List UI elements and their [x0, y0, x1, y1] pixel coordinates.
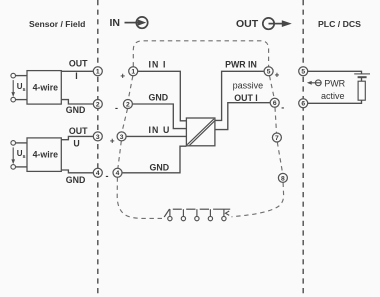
wire terminal to box bottom, block 2 [16, 166, 28, 168]
svg-text:7: 7 [275, 135, 279, 142]
device terminal 5 (PWR IN +) [264, 67, 273, 76]
svg-text:I: I [75, 71, 77, 81]
wire block2 GND to terminal 4 [61, 170, 93, 173]
svg-text:PLC / DCS: PLC / DCS [318, 19, 361, 29]
PLC terminal 5 on divider [299, 67, 308, 76]
svg-text:OUT: OUT [236, 18, 259, 30]
icon IN current-flow arrow into circle [125, 17, 148, 28]
icon OUT current-flow arrow out of circle [263, 18, 292, 29]
svg-text:GND: GND [66, 105, 86, 115]
4-wire transmitter block 2 terminal bottom [11, 165, 16, 170]
device dashed outline right edge segment 6-7 [275, 107, 277, 132]
DIP switch S4 [200, 209, 213, 221]
4-wire transmitter block 1 terminal top [11, 73, 16, 78]
device dashed outline top edge [133, 41, 268, 67]
wire resistor to terminal 6 [308, 100, 362, 103]
svg-text:5: 5 [267, 69, 271, 76]
svg-text:1: 1 [96, 69, 100, 76]
device dashed outline left edge segment 2-3 [122, 109, 128, 132]
svg-text:4: 4 [96, 170, 100, 177]
svg-text:OUT: OUT [69, 59, 88, 69]
svg-text:U: U [73, 139, 79, 149]
svg-text:IN U: IN U [149, 125, 171, 135]
svg-text:IN: IN [110, 17, 121, 29]
svg-text:+: + [120, 72, 125, 81]
PLC terminal 6 on divider [299, 99, 308, 108]
svg-text:2: 2 [126, 101, 130, 108]
svg-text:Sensor / Field: Sensor / Field [29, 19, 85, 29]
device terminal 8 [278, 173, 287, 182]
wire GND from terminal 4 to isolator bottom corner [122, 146, 186, 173]
svg-text:4: 4 [116, 170, 120, 177]
svg-text:-: - [115, 103, 118, 113]
svg-text:OUT I: OUT I [234, 93, 257, 103]
svg-text:PWR IN: PWR IN [225, 60, 257, 70]
device dashed outline left edge segment 3-4 [118, 141, 121, 168]
svg-text:active: active [321, 91, 345, 101]
wire terminal to box top, block 1 [16, 75, 28, 77]
device dashed outline left edge segment 1-2 [128, 76, 133, 99]
wire terminal 5 to battery [308, 71, 362, 74]
supply voltage arrow Us block 2 [12, 147, 14, 160]
4-wire transmitter block 1 terminal bottom [11, 97, 16, 102]
wire block2 OUT U to terminal 3 [61, 136, 93, 139]
svg-text:s: s [23, 87, 26, 93]
4-wire transmitter block 2 terminal top [11, 141, 16, 146]
svg-text:s: s [23, 154, 26, 160]
svg-text:5: 5 [301, 69, 305, 76]
wire GND from terminal 2 to isolator [132, 104, 186, 129]
device dashed outline right edge segment 5-6 [270, 76, 275, 98]
svg-text:-: - [281, 102, 284, 112]
device dashed outline bottom-right corner [232, 183, 284, 217]
svg-text:+: + [275, 70, 280, 79]
device terminal 1 (IN I +) [129, 67, 138, 76]
device terminal 2 (GND -) [123, 100, 132, 109]
wire battery to resistor load [361, 77, 363, 81]
svg-text:PWR: PWR [324, 79, 345, 89]
svg-text:OUT: OUT [69, 126, 88, 136]
device dashed outline right edge segment 7-8 [277, 142, 282, 173]
svg-text:passive: passive [233, 81, 264, 91]
wire PWR IN from isolator to terminal 5 [215, 71, 264, 120]
field terminal 1 on divider [93, 67, 102, 76]
svg-text:IN I: IN I [149, 60, 167, 70]
device terminal 6 (OUT I -) [270, 98, 279, 107]
wire IN U from terminal 3 to isolator [126, 135, 186, 137]
icon PWR active current-flow arrow [307, 80, 321, 86]
svg-text:2: 2 [96, 101, 100, 108]
DIP switch S1 (open lever) [164, 209, 172, 221]
svg-text:1: 1 [131, 69, 135, 76]
DIP switch S2 [173, 209, 186, 221]
wire block1 GND to terminal 2 [61, 100, 93, 104]
battery supply short plate [358, 76, 367, 78]
device dashed outline bottom-left corner [117, 177, 162, 218]
device terminal 4 (GND -) [113, 168, 122, 177]
resistor load R (burden) [358, 81, 365, 100]
svg-text:3: 3 [96, 134, 100, 141]
supply voltage arrow Us block 1 [12, 80, 14, 93]
divider dashed line 1 (Sensor/Field | device) [97, 0, 99, 297]
svg-text:4-wire: 4-wire [33, 150, 59, 160]
svg-text:3: 3 [120, 134, 124, 141]
4-wire transmitter box 1 [27, 71, 61, 105]
wire block1 OUT I to terminal 1 [61, 70, 93, 72]
DIP switch S5 with adjustment arrow [213, 209, 230, 221]
battery supply long plate [354, 73, 370, 75]
svg-text:+: + [110, 137, 115, 146]
svg-text:6: 6 [273, 100, 277, 107]
field terminal 4 on divider [93, 168, 102, 177]
wire OUT I from isolator to terminal 6 [215, 103, 270, 130]
svg-text:-: - [106, 171, 109, 181]
wire terminal to box bottom, block 1 [16, 99, 28, 101]
DIP switch S3 [186, 209, 199, 221]
svg-text:4-wire: 4-wire [33, 82, 59, 92]
svg-text:GND: GND [149, 93, 169, 103]
svg-text:8: 8 [281, 175, 285, 182]
field terminal 3 on divider [93, 132, 102, 141]
wire terminal to box top, block 2 [16, 142, 28, 144]
wire IN I from terminal 1 to isolator [138, 71, 187, 121]
divider dashed line 2 (device | PLC/DCS) [302, 0, 304, 297]
isolator / signal conditioner box U1 with galvanic isolation diagonal [186, 118, 215, 146]
svg-text:GND: GND [150, 163, 170, 173]
svg-text:GND: GND [66, 175, 86, 185]
device terminal 3 (IN U +) [117, 132, 126, 141]
device terminal 7 [272, 133, 281, 142]
svg-text:6: 6 [301, 101, 305, 108]
field terminal 2 on divider [93, 100, 102, 109]
4-wire transmitter box 2 [27, 138, 61, 172]
